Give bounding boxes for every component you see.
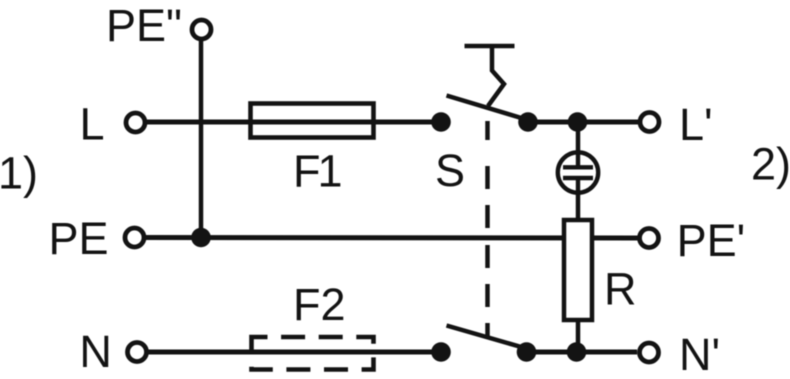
junction dot: PE / PE" drop xyxy=(191,228,211,248)
capacitor inner stubs xyxy=(576,153,580,168)
svg-text:S: S xyxy=(435,145,465,196)
terminal N' xyxy=(640,343,659,362)
fuse F2 (dashed) xyxy=(252,337,374,370)
junction dot: N / switch left contact xyxy=(431,342,451,362)
junction dot: L / capacitor branch xyxy=(568,112,588,132)
svg-text:PE": PE" xyxy=(106,0,182,51)
svg-text:R: R xyxy=(604,264,637,315)
terminal L' xyxy=(640,113,659,132)
capacitor C (feed-through, circle symbol) xyxy=(558,152,598,192)
svg-text:N': N' xyxy=(679,329,720,379)
junction dot: L / switch right contact xyxy=(518,112,538,132)
resistor R xyxy=(564,220,592,320)
svg-text:1): 1) xyxy=(0,147,38,198)
capacitor plates xyxy=(563,165,593,169)
wire branch: capacitor to resistor xyxy=(576,178,581,219)
wire N line right xyxy=(527,350,638,355)
wire branch: L junction down to capacitor xyxy=(576,122,581,167)
wire N line left (through fuse F2) xyxy=(149,350,442,355)
svg-text:L: L xyxy=(80,99,105,150)
mechanical linkage (dashed) xyxy=(485,121,490,337)
wire L line right xyxy=(526,120,638,125)
wire PE" vertical drop xyxy=(199,41,204,238)
terminal N xyxy=(128,343,147,362)
svg-text:L': L' xyxy=(679,99,713,150)
svg-text:2): 2) xyxy=(751,139,790,190)
junction dot: N / switch right contact xyxy=(517,342,537,362)
junction dot: L / switch left contact xyxy=(431,112,451,132)
terminal PE xyxy=(125,228,144,247)
svg-text:F1: F1 xyxy=(293,146,340,197)
switch S actuator T-bar xyxy=(465,44,515,49)
junction dot: N / resistor branch xyxy=(567,342,587,362)
terminal PE" xyxy=(192,20,211,39)
terminal L xyxy=(126,113,145,132)
wire branch: resistor down to N line xyxy=(576,318,581,352)
svg-text:F2: F2 xyxy=(293,279,346,330)
switch S blade (L line) xyxy=(447,96,524,119)
wire L line left (through fuse F1) xyxy=(146,120,441,125)
svg-text:PE: PE xyxy=(49,213,109,264)
fuse F1 xyxy=(251,104,374,138)
wire PE line xyxy=(146,235,638,241)
svg-text:PE': PE' xyxy=(677,215,746,266)
switch blade (N line) xyxy=(447,326,524,348)
svg-text:N: N xyxy=(79,326,112,377)
terminal PE' xyxy=(640,229,659,248)
switch S actuator stem and zigzag xyxy=(488,46,504,106)
